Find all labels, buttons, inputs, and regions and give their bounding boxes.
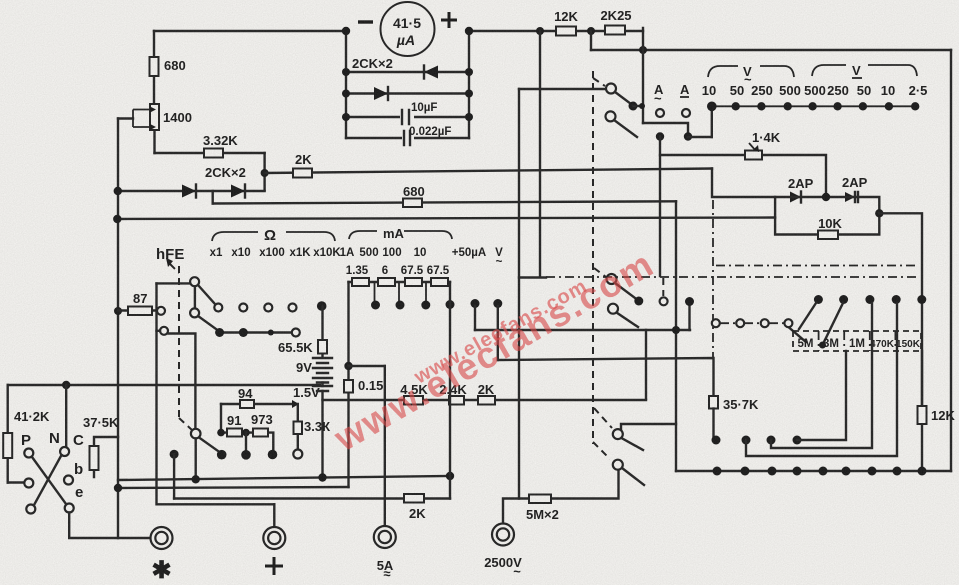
resistor 65.5K vertical — [318, 306, 327, 356]
switch mid-right pole2 — [608, 304, 638, 327]
labels P N C b e — [21, 430, 84, 501]
labels ohm range row — [210, 247, 342, 259]
node x10K big dot — [317, 301, 327, 311]
contact circle mid-right — [660, 297, 668, 305]
diode D4 right-pointing — [231, 185, 245, 198]
node dot x118 y488 — [114, 484, 122, 492]
node bottom contact dots row — [217, 450, 302, 460]
switch bottom-mid pole a — [613, 424, 676, 450]
wire 91 973 row — [221, 433, 273, 450]
node meter right dot — [465, 27, 473, 35]
node dot battery bottom — [318, 473, 326, 481]
node nest row dots — [712, 436, 802, 445]
node top-right contact dots — [814, 295, 926, 304]
wire to P middle contact — [8, 481, 24, 483]
capacitor C1 10uF — [400, 102, 437, 124]
node top-rail junction x591 — [587, 27, 595, 35]
node dot isolated x174 — [170, 450, 179, 499]
bracket Vac — [708, 64, 794, 87]
wire V terminals row — [712, 105, 918, 107]
wire right edge vertical — [950, 50, 952, 471]
node dot between 91 973 — [242, 429, 250, 450]
wire top rail y50 — [591, 49, 951, 51]
node dot y50 x643 — [639, 46, 647, 54]
wire 1.4K row — [660, 155, 826, 197]
label A~ terminal — [654, 82, 664, 117]
resistor 41.2K vertical — [3, 385, 50, 483]
wire nest inner — [797, 351, 846, 440]
resistor 2K25 top — [600, 8, 631, 35]
bracket mA ranges — [349, 226, 452, 241]
switch hFE bottom pole — [191, 429, 218, 479]
wire loop to x922 — [879, 213, 922, 299]
node terminal dot Vac — [493, 299, 502, 360]
wire x646 vertical — [645, 330, 647, 399]
switch hFE pole1 — [157, 277, 216, 308]
node dot top switch common — [629, 102, 646, 111]
resistor 87 — [114, 291, 165, 315]
switch ohm contacts row — [214, 304, 296, 312]
wire e to star jack — [69, 513, 151, 539]
node dot y385 x66 — [62, 381, 70, 389]
dash-dot linkage horizontal upper — [716, 265, 919, 267]
wire diagonals to ohm box — [788, 303, 843, 349]
node dot 91 left — [217, 429, 225, 437]
wire x591 stub — [590, 31, 592, 50]
node dot 0.15 top — [344, 362, 352, 370]
wire y366 link — [349, 365, 385, 367]
wire mA shunt chain — [349, 281, 451, 283]
wire shunt row3 — [346, 116, 469, 118]
node shunt rows dots left — [342, 68, 350, 121]
node dot y330 x676 — [672, 326, 680, 334]
dashed linkage to bottom switch a — [594, 408, 612, 428]
jack star — [151, 527, 173, 584]
node dot x449 — [446, 472, 454, 480]
battery 1.5V cell — [293, 385, 332, 476]
wire top rail right — [469, 30, 643, 32]
wire meter shunt box left side — [345, 31, 347, 138]
node Aac dot — [656, 132, 664, 276]
resistor 2K row — [293, 152, 312, 178]
wire y385 rail — [8, 384, 320, 386]
wire mA series row y400 — [323, 399, 647, 401]
node row2 dots — [215, 328, 300, 337]
resistor 3.32K — [203, 133, 238, 158]
wire left column x154 top — [153, 31, 156, 153]
switch linkage circles row — [712, 319, 793, 327]
node diode row left dot — [114, 187, 122, 195]
bracket ohm ranges — [212, 227, 335, 244]
node dot 2AP mid — [822, 193, 830, 201]
wire 0.15 column — [347, 282, 349, 487]
wire x264.6 drop — [263, 153, 265, 190]
wire nest outer — [746, 303, 897, 456]
potentiometer 1.4K — [745, 130, 781, 160]
dash-dot linkage x713 lower — [712, 200, 714, 357]
wire long rail y218 — [117, 218, 775, 220]
wire shunt row4 — [346, 137, 469, 139]
scan noise overlay — [0, 0, 1, 1]
wire y476 link row — [118, 476, 450, 480]
meter M1 41.5uA — [358, 2, 457, 56]
resistor shunt 67.5 a — [405, 278, 422, 286]
wire 680 long row — [213, 201, 676, 203]
wire left main vertical x118 — [117, 119, 119, 539]
wire diode row 2CKx2 — [118, 190, 265, 192]
node bottom rail dots — [713, 467, 927, 476]
wire x221 drop — [220, 404, 222, 433]
wire y360 to 35.7K — [498, 358, 714, 396]
jack 2500V — [484, 524, 522, 580]
resistor 2K bottom — [404, 494, 426, 521]
resistor 37.5K vertical — [83, 415, 119, 477]
contact circle b-row — [157, 327, 196, 429]
resistor 97.3 — [251, 412, 273, 437]
resistor 12K top — [554, 9, 578, 36]
node dot x195 y479 — [192, 475, 200, 483]
resistor 2.4K — [439, 382, 467, 405]
jack plus — [263, 504, 285, 575]
dashed linkage to top switch — [593, 78, 605, 86]
wire x66 from y385 to N — [65, 385, 67, 447]
resistor 3.3K vertical — [294, 404, 331, 449]
wire x384.8 down to 5A jack — [384, 366, 386, 526]
wire y488 link row — [118, 487, 349, 488]
resistor 94 — [240, 400, 254, 408]
resistor 10K — [818, 216, 843, 239]
node dot mid-right common — [634, 297, 643, 306]
dash-dot linkage horizontal lower — [546, 276, 916, 278]
switch bottom-mid pole b — [613, 460, 644, 485]
wire X cross diagonal 1 — [32, 457, 66, 504]
wire 1400 box to left vertical — [118, 117, 133, 119]
diode 2AP b — [842, 175, 868, 202]
wire X cross diagonal 2 — [34, 455, 62, 505]
wire 2.5V vertical x519 — [518, 89, 520, 499]
wire x689 stub — [688, 303, 690, 330]
switch top pole2 — [606, 111, 638, 137]
switch mid-right pole1 — [607, 274, 636, 298]
wire shunt row1 — [346, 71, 469, 73]
resistor 680 vertical — [150, 57, 186, 76]
node meter left dot — [342, 27, 350, 35]
wire row2 contacts — [220, 331, 292, 333]
wire x449 vertical — [449, 282, 451, 499]
switch hFE pole2 — [190, 308, 216, 329]
wire nest mid — [771, 303, 872, 448]
wire shunt row2 — [346, 92, 469, 94]
wire top rail left — [154, 30, 346, 32]
resistor 680 long row — [403, 184, 425, 207]
node 264 junction — [261, 169, 269, 177]
wire shunt taps down — [375, 282, 427, 302]
label A= terminal — [680, 82, 690, 117]
node V terminal dots — [707, 102, 919, 112]
wire right long vertical x676 — [675, 201, 677, 471]
wire x643 vertical — [642, 28, 644, 123]
wire y330 bar — [475, 329, 690, 331]
node Adc dot — [684, 132, 712, 140]
wire resistor 94 row — [221, 386, 299, 408]
wire plus rail vertical x540 — [539, 31, 541, 277]
dashed stub to contact circle — [662, 278, 664, 296]
node mA terminal dots row — [371, 300, 455, 310]
wire 2K bottom row y498 — [174, 497, 450, 499]
resistor 12K right — [918, 351, 956, 471]
node dot x689 — [685, 297, 694, 306]
resistor 2K mid — [478, 382, 495, 405]
wire y123 to Adc — [643, 123, 688, 133]
jack 5A — [374, 526, 396, 581]
switch top pole1 — [519, 84, 631, 105]
diode D3 right-pointing — [182, 185, 196, 198]
wire y276 link — [519, 276, 546, 278]
wire 2500V to 5Mx2 — [503, 469, 619, 523]
switch X contacts circles — [24, 447, 73, 514]
node top-rail junction x540 — [536, 27, 544, 35]
battery 9V cells — [296, 358, 332, 386]
diode 2AP a — [788, 176, 814, 203]
node long rail left dot — [113, 215, 121, 223]
resistor 4.5K — [400, 382, 428, 405]
labels V range values — [702, 83, 928, 98]
dashed rotary linkage main — [592, 71, 594, 444]
wire 2K row to right — [265, 169, 712, 174]
diode D1 left-pointing row1 — [424, 66, 438, 79]
dashed linkage to bottom switch b — [593, 442, 610, 459]
wire 3.32K row — [155, 152, 265, 154]
resistor 0.15 — [344, 378, 383, 393]
resistor shunt 1.35 — [352, 278, 369, 286]
node terminal dot 50uA — [471, 299, 480, 330]
rheostat 1400 — [150, 104, 192, 130]
capacitor C2 0.022uF — [402, 126, 451, 145]
resistor shunt 67.5 b — [431, 278, 448, 286]
dash linkage row segments — [720, 322, 784, 324]
wire x156.8 vertical to plus jack — [157, 283, 275, 504]
wire meter shunt box right side — [468, 31, 470, 138]
dashed linkage to mid switch — [594, 268, 606, 277]
dashed hFE linkage — [166, 258, 192, 430]
resistor 35.7K — [709, 396, 759, 440]
wire y197 left stub — [712, 169, 775, 198]
resistor box 5M 3M 1M 470K 150K — [793, 331, 921, 351]
wire x922 through box — [921, 303, 923, 406]
resistor shunt 6 — [378, 278, 395, 286]
wire bottom rail y471 — [676, 470, 951, 472]
rheostat 1400 wiper box with arrows — [133, 107, 156, 131]
wire 2AP 10K loop box — [775, 197, 879, 235]
node shunt rows dots right — [465, 68, 473, 121]
diode D2 right-pointing row2 — [374, 87, 388, 100]
resistor 91 — [227, 413, 242, 437]
bracket Vdc — [812, 63, 917, 78]
wire V first terminal stub — [711, 106, 713, 137]
resistor 5Mx2 — [526, 495, 559, 523]
labels mA range row — [340, 247, 504, 268]
labels shunt values row — [346, 265, 450, 277]
wire diode mid tap down — [211, 191, 213, 204]
node dot loop right — [875, 209, 883, 217]
